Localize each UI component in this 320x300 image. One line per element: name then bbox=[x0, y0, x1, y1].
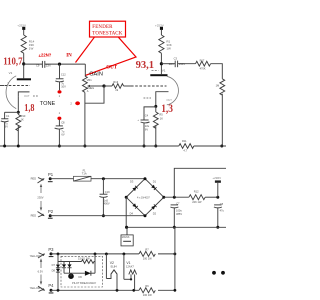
AC bottom line bbox=[50, 215, 145, 217]
capacitor C19 line filter bbox=[99, 179, 110, 216]
plate bar bbox=[150, 74, 167, 76]
bridge rectifier D1-D4 bbox=[125, 177, 166, 217]
transformer lead YELLOW (bottom) bbox=[30, 286, 45, 292]
svg-text:MAINS: MAINS bbox=[122, 236, 130, 239]
node C12 tap bbox=[58, 63, 61, 66]
svg-text:OUT: OUT bbox=[24, 94, 30, 98]
terminal P4 bbox=[48, 283, 54, 294]
resistor R14 33K bbox=[21, 35, 35, 53]
heater V2 EL84 bbox=[106, 254, 117, 290]
envelope arc bbox=[6, 76, 16, 109]
svg-text:6V: 6V bbox=[145, 127, 148, 131]
svg-text:10V: 10V bbox=[61, 84, 66, 88]
triode V1a bbox=[0, 71, 39, 109]
svg-text:P1: P1 bbox=[48, 172, 54, 177]
svg-text:TONESTACK: TONESTACK bbox=[92, 31, 122, 36]
wire node to C3 bbox=[161, 63, 175, 65]
node cathode V1b bbox=[154, 105, 157, 108]
capacitor C7 filter bbox=[170, 202, 182, 228]
node cathode V1a bbox=[17, 111, 20, 114]
wire R17 to right edge drop bbox=[211, 64, 223, 79]
svg-text:P4: P4 bbox=[48, 283, 54, 288]
svg-text:EL84: EL84 bbox=[111, 264, 118, 268]
svg-text:¿22N?: ¿22N? bbox=[39, 52, 52, 57]
svg-text:V1: V1 bbox=[162, 69, 166, 73]
svg-text:100 1W: 100 1W bbox=[143, 293, 152, 297]
svg-text:12AX7: 12AX7 bbox=[126, 264, 134, 268]
svg-text:C19: C19 bbox=[105, 190, 110, 194]
svg-text:C12: C12 bbox=[61, 72, 66, 76]
resistor R2 (right edge, grid leak) bbox=[216, 79, 225, 95]
resistor R13 grid stopper bbox=[104, 80, 131, 92]
wiper bbox=[89, 85, 104, 87]
diode D3 bbox=[132, 186, 137, 191]
svg-text:+296V: +296V bbox=[212, 176, 221, 180]
transformer lead RED (top) bbox=[31, 176, 45, 183]
diode D1 bbox=[151, 185, 156, 190]
svg-text:D2: D2 bbox=[153, 212, 157, 216]
wire bridge minus down bbox=[125, 197, 127, 227]
svg-text:C8: C8 bbox=[61, 120, 65, 124]
svg-text:15.0Ω 1W: 15.0Ω 1W bbox=[78, 257, 90, 261]
svg-text:22N: 22N bbox=[169, 62, 174, 66]
wire C3 to R17 bbox=[178, 63, 196, 65]
transformer lead RED (bottom) bbox=[31, 212, 45, 218]
resistor R1 33K bbox=[159, 35, 172, 53]
svg-text:C3: C3 bbox=[174, 57, 178, 61]
svg-text:470K: 470K bbox=[200, 67, 206, 71]
LED pilot lamp bbox=[68, 273, 74, 279]
B+ line up and right bbox=[174, 168, 226, 197]
svg-text:R13: R13 bbox=[113, 80, 118, 84]
svg-text:V1: V1 bbox=[9, 71, 13, 75]
dropper diodes on P3 feed bbox=[52, 254, 61, 290]
svg-text:PILOT BREAKAWAY: PILOT BREAKAWAY bbox=[72, 281, 96, 285]
svg-text:C4: C4 bbox=[145, 113, 149, 117]
power flag +250V (right) bbox=[155, 23, 164, 30]
svg-text:400V: 400V bbox=[104, 201, 110, 205]
ground flag above C8 bbox=[212, 176, 221, 197]
node plate V1b bbox=[160, 62, 163, 65]
heater bottom line bbox=[51, 289, 175, 291]
svg-text:22K 1W: 22K 1W bbox=[192, 200, 202, 204]
power flag +250V (left) bbox=[17, 23, 26, 30]
svg-text:D8: D8 bbox=[52, 269, 56, 273]
svg-text:FENDER: FENDER bbox=[92, 25, 113, 30]
svg-text:6V: 6V bbox=[5, 125, 8, 129]
resistor R17 bbox=[196, 58, 211, 70]
svg-text:P3: P3 bbox=[48, 247, 54, 252]
svg-text:C1: C1 bbox=[6, 114, 10, 118]
capacitor C8 filter bbox=[214, 202, 225, 227]
wire R14 to plate node bbox=[23, 53, 25, 78]
capacitor C12 bbox=[55, 64, 66, 90]
wire flag to R14 bbox=[23, 30, 25, 35]
red test point node 1 bbox=[58, 90, 62, 93]
heater winding dimension arrows bbox=[38, 258, 44, 285]
svg-text:110,7: 110,7 bbox=[3, 57, 22, 68]
wire R1 to plate node bbox=[160, 53, 162, 74]
envelope arc bbox=[167, 76, 179, 105]
svg-text:1M: 1M bbox=[216, 83, 220, 87]
svg-text:R12: R12 bbox=[194, 189, 199, 193]
potentiometer VR1 1MEG A bbox=[83, 76, 105, 93]
svg-text:RED: RED bbox=[31, 214, 37, 218]
svg-text:230V: 230V bbox=[37, 196, 43, 200]
capacitor C8 (tone, to ground) bbox=[55, 120, 65, 146]
svg-text:R10: R10 bbox=[21, 114, 26, 118]
heater feed from ground rail bbox=[174, 227, 176, 290]
svg-text:1K: 1K bbox=[160, 117, 163, 121]
svg-text:D4: D4 bbox=[130, 212, 134, 216]
diode D6 bbox=[64, 271, 95, 279]
node plate V1a (110,7) bbox=[22, 62, 25, 65]
capacitor C4 bypass bbox=[137, 113, 149, 146]
svg-text:R17: R17 bbox=[200, 58, 205, 62]
terminal P2 bbox=[48, 209, 54, 219]
svg-text:OUT: OUT bbox=[166, 98, 172, 102]
resistor R10 1K bbox=[16, 112, 26, 146]
wire flag to R1 bbox=[160, 30, 162, 35]
svg-text:1K: 1K bbox=[21, 118, 24, 122]
wire R2 to rail bbox=[221, 94, 223, 146]
svg-text:R11: R11 bbox=[182, 139, 187, 143]
diodes D7 D8 (pilot shunt) bbox=[62, 262, 72, 274]
resistor R5 cathode bbox=[153, 106, 163, 146]
terminal P3 bbox=[48, 247, 54, 257]
svg-text:1,3: 1,3 bbox=[161, 103, 173, 115]
wire node to C4 bbox=[144, 107, 156, 120]
wire node to C9 bbox=[24, 63, 42, 65]
wire fuse to bridge bbox=[91, 178, 145, 180]
FENDER TONESTACK red annotation box bbox=[90, 21, 126, 37]
svg-text:VR1: VR1 bbox=[87, 78, 93, 82]
wire pilot feed bbox=[94, 254, 96, 273]
HV winding dimension arrows bbox=[37, 184, 43, 211]
cathode bbox=[156, 92, 169, 107]
fuse F1 bbox=[74, 168, 92, 181]
resistor R11 in rail bbox=[179, 139, 194, 152]
resistor R6 100 1W (hum) bbox=[139, 284, 158, 297]
svg-text:IN: IN bbox=[66, 54, 72, 59]
node C19 tap bbox=[102, 177, 105, 180]
grid wire + dashes bbox=[0, 85, 4, 87]
svg-text:RED: RED bbox=[31, 176, 37, 180]
svg-text:C8: C8 bbox=[220, 202, 224, 206]
svg-text:250V: 250V bbox=[179, 62, 185, 66]
capacitor C3 coupling bbox=[169, 57, 186, 68]
svg-text:GAIN: GAIN bbox=[89, 71, 103, 77]
svg-text:A: A bbox=[87, 89, 89, 93]
svg-text:47u: 47u bbox=[220, 209, 225, 213]
node wiper junction bbox=[102, 84, 105, 87]
svg-text:R7: R7 bbox=[145, 247, 149, 251]
plate bar bbox=[17, 78, 31, 80]
capacitor C1 bypass bbox=[1, 112, 10, 146]
svg-text:6V: 6V bbox=[61, 132, 64, 136]
svg-text:1W: 1W bbox=[166, 47, 171, 51]
mains earth box bbox=[121, 227, 133, 246]
wire pot bottom to ground rail bbox=[84, 93, 86, 147]
svg-text:OUT: OUT bbox=[106, 66, 118, 71]
svg-text:385V: 385V bbox=[176, 212, 182, 216]
resistor R12 22K 1W bbox=[189, 189, 218, 204]
ground rail (top section) bbox=[0, 145, 179, 147]
svg-text:4 x 1N4007: 4 x 1N4007 bbox=[137, 196, 150, 199]
grid dashes bbox=[131, 85, 167, 87]
wire node to C1 bbox=[5, 111, 19, 113]
svg-text:6.3V: 6.3V bbox=[38, 269, 44, 273]
diode D4 bbox=[132, 203, 137, 208]
svg-text:D7: D7 bbox=[52, 263, 56, 267]
svg-text:T1A: T1A bbox=[82, 171, 87, 175]
triode V1b bbox=[131, 69, 178, 107]
DC ground rail bbox=[126, 226, 226, 228]
terminal P1 bbox=[48, 172, 54, 182]
svg-text:1,8: 1,8 bbox=[24, 103, 34, 114]
pilot breakaway dashed box bbox=[61, 256, 103, 287]
transformer lead YELLOW (top) bbox=[30, 253, 45, 258]
svg-text:D3: D3 bbox=[130, 179, 134, 183]
AC top line bbox=[50, 178, 73, 180]
wire wiper loop to pot bottom bbox=[85, 86, 104, 103]
svg-text:4,7: 4,7 bbox=[183, 148, 187, 152]
svg-text:D1: D1 bbox=[153, 179, 157, 183]
wire into gain pot bbox=[84, 64, 86, 76]
cathode bbox=[18, 92, 29, 97]
svg-text:TONE: TONE bbox=[40, 101, 56, 107]
svg-text:93,1: 93,1 bbox=[136, 60, 155, 71]
wire bridge plus to filter bbox=[164, 196, 189, 198]
svg-text:100 1W: 100 1W bbox=[143, 256, 152, 260]
svg-text:R6: R6 bbox=[145, 284, 149, 288]
wire C9 to gain bbox=[45, 63, 86, 65]
resistor R8 pilot dropper bbox=[58, 257, 95, 264]
svg-text:C9: C9 bbox=[36, 63, 40, 67]
resistor R7 100 1W (hum) bbox=[139, 247, 158, 260]
speaker terminal dots bbox=[212, 271, 216, 275]
red leader line IN bbox=[76, 37, 95, 62]
capacitor C9 22N (coupling) bbox=[36, 52, 52, 67]
heater top line bbox=[51, 253, 175, 255]
heater V1 12AX7 bbox=[124, 254, 137, 290]
wire cathode down bbox=[17, 96, 19, 112]
svg-text:1W: 1W bbox=[29, 47, 34, 51]
svg-text:P2: P2 bbox=[48, 209, 54, 214]
svg-text:D6: D6 bbox=[79, 275, 83, 279]
diode D2 bbox=[151, 204, 156, 209]
svg-text:R5: R5 bbox=[159, 113, 163, 117]
red leader line OUT bbox=[85, 37, 136, 75]
